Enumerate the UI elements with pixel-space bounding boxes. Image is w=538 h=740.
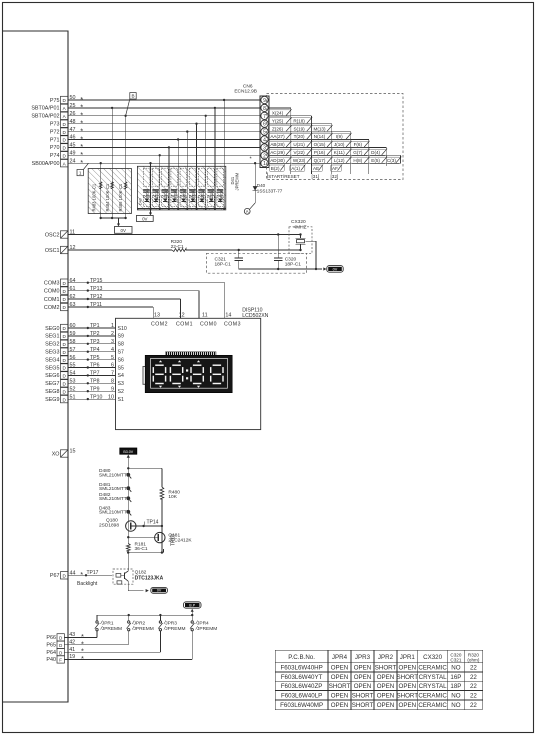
svg-text:V(22): V(22) xyxy=(293,150,305,155)
svg-text:JPR4: JPR4 xyxy=(332,654,348,661)
key switch F(6) xyxy=(351,141,369,147)
resistor R44 102 / capacitor C44 / diode D44 column xyxy=(180,168,187,186)
svg-text:SEG1: SEG1 xyxy=(45,334,59,340)
svg-text:Z(26): Z(26) xyxy=(272,126,283,131)
svg-text:F603L6W40MP: F603L6W40MP xyxy=(280,702,323,709)
svg-text:OPEN: OPEN xyxy=(399,702,417,709)
svg-text:9: 9 xyxy=(263,98,266,104)
wire P73 to CN6 xyxy=(68,123,260,125)
svg-text:0V: 0V xyxy=(121,228,126,233)
wire P67 to Q182 xyxy=(68,574,112,576)
key switch C(3) xyxy=(386,157,400,163)
wire SEG7 xyxy=(68,382,116,384)
svg-text:J(10): J(10) xyxy=(334,142,345,147)
jumper JPR2 JPREMM xyxy=(128,615,130,621)
svg-text:S1: S1 xyxy=(118,397,124,403)
svg-text:N(14): N(14) xyxy=(314,134,326,139)
svg-text:OPEN: OPEN xyxy=(354,665,372,672)
svg-text:OSC1: OSC1 xyxy=(45,248,60,254)
svg-text:OPEN: OPEN xyxy=(399,665,417,672)
svg-text:SEG4: SEG4 xyxy=(45,357,59,363)
svg-text:SEG7: SEG7 xyxy=(45,381,59,387)
wire SEG1 xyxy=(68,335,116,337)
svg-text:XO: XO xyxy=(52,451,60,457)
svg-text:F603L6W40YT: F603L6W40YT xyxy=(281,674,323,681)
LCD digit 3 (8) xyxy=(193,364,202,366)
svg-text:Backlight: Backlight xyxy=(77,581,98,587)
svg-text:P70: P70 xyxy=(50,145,60,151)
svg-text:22: 22 xyxy=(470,702,477,709)
LCD digit 1 (8) xyxy=(155,364,164,366)
svg-text:SEG9: SEG9 xyxy=(45,397,59,403)
svg-text:S8: S8 xyxy=(118,342,124,348)
svg-text:SEG3: SEG3 xyxy=(45,350,59,356)
svg-text:AE: AE xyxy=(313,166,319,171)
svg-text:CX320: CX320 xyxy=(291,219,306,225)
svg-text:6: 6 xyxy=(263,122,266,128)
svg-text:NO: NO xyxy=(451,702,460,709)
resistor R48 102 / capacitor C48 / diode D48 column xyxy=(217,168,224,186)
svg-text:LCD502XN: LCD502XN xyxy=(242,313,268,319)
svg-text:*: * xyxy=(80,158,83,167)
svg-text:7: 7 xyxy=(263,114,266,120)
svg-text:0V: 0V xyxy=(142,216,147,221)
wire P65 to jumper xyxy=(64,644,128,646)
resistor R41 102 / capacitor C41 / diode D41 column xyxy=(153,168,160,186)
svg-text:COM1: COM1 xyxy=(44,297,60,303)
svg-text:W(23): W(23) xyxy=(293,158,306,163)
svg-text:A: A xyxy=(246,209,249,214)
svg-text:B.P: B.P xyxy=(189,604,195,608)
svg-text:OPEN: OPEN xyxy=(354,674,372,681)
power rail B30V xyxy=(120,448,137,454)
svg-text:COM2: COM2 xyxy=(151,322,168,328)
resistor R43 102 / capacitor C43 / diode D43 column xyxy=(171,168,178,186)
transistor Q180 2SD1898 xyxy=(127,521,129,537)
key switch P(16) xyxy=(311,149,331,155)
svg-text:OPEN: OPEN xyxy=(331,693,349,700)
resistor R45 102 / capacitor C45 / diode D45 column xyxy=(189,168,196,186)
svg-text:22: 22 xyxy=(470,674,477,681)
svg-text:JPREMM: JPREMM xyxy=(134,626,154,632)
svg-text:TP16: TP16 xyxy=(171,534,177,546)
resistor R320 22 xyxy=(68,249,172,251)
svg-text:CRYSTAL: CRYSTAL xyxy=(419,683,448,690)
svg-text:D41: D41 xyxy=(152,195,158,199)
svg-text:SML210MTT: SML210MTT xyxy=(99,510,127,516)
jumper JPR3 JPREMM xyxy=(159,615,161,621)
svg-text:12: 12 xyxy=(179,313,185,319)
CN6 pin 1 xyxy=(261,160,268,167)
svg-text:R484 100K-C1: R484 100K-C1 xyxy=(105,183,110,211)
resistor R46 102 / capacitor C46 / diode D46 column xyxy=(199,168,206,186)
svg-text:P75: P75 xyxy=(50,98,60,104)
svg-text:S(19): S(19) xyxy=(293,126,305,131)
svg-text:JPR4: JPR4 xyxy=(197,621,209,627)
svg-text:D42: D42 xyxy=(161,195,167,199)
resistor R42 102 / capacitor C42 / diode D42 column xyxy=(162,168,169,186)
key switch I(9) xyxy=(332,134,351,140)
svg-text:COM3: COM3 xyxy=(224,322,241,328)
svg-text:SML210MTT: SML210MTT xyxy=(99,486,127,492)
svg-text:ECN12.9B: ECN12.9B xyxy=(234,89,257,95)
wire SEG9 xyxy=(68,398,116,400)
resistor R480 10K xyxy=(128,467,162,469)
svg-text:OPEN: OPEN xyxy=(331,674,349,681)
svg-text:OPEN: OPEN xyxy=(377,674,395,681)
svg-text:COM0: COM0 xyxy=(200,322,217,328)
svg-text:5: 5 xyxy=(263,130,266,136)
svg-text:CX320: CX320 xyxy=(423,654,442,661)
wire Q182 collector up xyxy=(127,553,129,569)
resistor R181 36 xyxy=(127,537,129,543)
svg-text:S6: S6 xyxy=(118,357,124,363)
svg-text:C(3): C(3) xyxy=(387,158,396,163)
diode D480 SML210MTT xyxy=(126,473,130,477)
svg-text:S9: S9 xyxy=(118,334,124,340)
svg-text:JPR1: JPR1 xyxy=(102,621,114,627)
svg-text:13: 13 xyxy=(154,313,160,319)
wire P40 to jumper xyxy=(64,658,192,660)
diode D483 SML210MTT xyxy=(126,510,130,514)
svg-text:JPREMM: JPREMM xyxy=(235,172,240,190)
key switch H(8) xyxy=(351,157,369,163)
svg-text:0V: 0V xyxy=(157,589,162,593)
option table xyxy=(275,649,483,651)
svg-text:START/RESET: START/RESET xyxy=(268,174,299,179)
svg-text:S5: S5 xyxy=(118,365,124,371)
svg-text:SEG2: SEG2 xyxy=(45,342,59,348)
wire B.P to jumper bus xyxy=(191,609,194,612)
svg-text:P72: P72 xyxy=(50,129,60,135)
svg-text:DTC123JKA: DTC123JKA xyxy=(135,575,164,581)
svg-text:AD(30): AD(30) xyxy=(270,158,285,163)
svg-text:22: 22 xyxy=(470,683,477,690)
svg-text:D47: D47 xyxy=(207,195,213,199)
diode D40 1SS133T-77 xyxy=(253,186,258,191)
ground 0V (osc) xyxy=(327,266,343,273)
wire P71 to CN6 xyxy=(68,139,260,141)
IC U1 (microcontroller) body outline xyxy=(3,31,69,702)
svg-text:M(13): M(13) xyxy=(314,126,326,131)
key switch E(5) xyxy=(369,157,387,163)
svg-text:P67: P67 xyxy=(50,573,60,579)
key switch L(12) xyxy=(332,157,351,163)
key switch M(13) xyxy=(311,126,331,132)
svg-text:1: 1 xyxy=(79,171,82,176)
svg-text:CRYSTAL: CRYSTAL xyxy=(419,674,448,681)
svg-text:E(5): E(5) xyxy=(371,158,380,163)
svg-text:L(12): L(12) xyxy=(334,158,345,163)
CN6 pin 2 xyxy=(261,152,268,159)
svg-text:D45: D45 xyxy=(189,195,195,199)
svg-text:JPR3: JPR3 xyxy=(355,654,371,661)
wire COM1 xyxy=(68,298,181,300)
key switch AC(29) xyxy=(268,149,291,155)
svg-text:Q(17): Q(17) xyxy=(314,158,326,163)
wire SEG0 xyxy=(68,327,116,329)
svg-text:OPEN: OPEN xyxy=(377,693,395,700)
wire P74 to CN6 xyxy=(68,154,260,156)
svg-text:11: 11 xyxy=(202,313,208,319)
wire SEG5 xyxy=(68,367,116,369)
svg-text:D40: D40 xyxy=(143,195,149,199)
svg-text:SHORT: SHORT xyxy=(329,683,351,690)
svg-text:36-C1: 36-C1 xyxy=(135,546,148,552)
svg-text:CERAMIC: CERAMIC xyxy=(418,665,447,672)
svg-text:JPREMM: JPREMM xyxy=(165,626,185,632)
svg-text:CERAMIC: CERAMIC xyxy=(418,693,447,700)
power rail B.P xyxy=(184,602,202,608)
svg-text:15: 15 xyxy=(70,449,76,455)
key switch Q(17) xyxy=(311,157,331,163)
svg-text:8: 8 xyxy=(263,106,266,112)
capacitor C321 18P xyxy=(238,249,240,251)
wire SEG3 xyxy=(68,351,116,353)
svg-text:SHORT: SHORT xyxy=(397,674,419,681)
svg-text:SML210MTT: SML210MTT xyxy=(99,473,127,479)
wire P66 to jumper xyxy=(64,636,97,638)
svg-text:SBT0A/P01: SBT0A/P01 xyxy=(31,106,59,112)
svg-text:16P: 16P xyxy=(450,674,461,681)
svg-text:D(4): D(4) xyxy=(371,150,380,155)
svg-text:COM1: COM1 xyxy=(176,322,193,328)
key switch Y(25) xyxy=(268,118,291,124)
wire SEG2 xyxy=(68,343,116,345)
key switch AF xyxy=(331,165,342,171)
wire SBT0A/P01 to CN6 xyxy=(68,107,260,109)
CN6 pin 5 xyxy=(261,128,268,135)
svg-text:F: F xyxy=(59,658,62,663)
svg-text:S7: S7 xyxy=(118,350,124,356)
wire COM3 xyxy=(68,282,225,284)
svg-text:14: 14 xyxy=(225,313,231,319)
svg-text:SBT0A/P02: SBT0A/P02 xyxy=(31,114,59,120)
wire SEG8 xyxy=(68,390,116,392)
wire to ground xyxy=(150,209,152,213)
key switch K(11) xyxy=(332,149,351,155)
resistor array R483 R484 R485 100K xyxy=(88,169,131,214)
key switch R(18) xyxy=(291,118,312,124)
svg-text:X(24): X(24) xyxy=(272,111,284,116)
svg-text:R(18): R(18) xyxy=(293,118,305,123)
key switch D(4) xyxy=(369,149,387,155)
svg-text:F603L6W40ZP: F603L6W40ZP xyxy=(281,683,323,690)
wire from B30V xyxy=(127,455,130,458)
svg-text:18P: 18P xyxy=(450,683,461,690)
LCD glass: zebra strip xyxy=(166,352,217,356)
jumper bus xyxy=(97,614,192,616)
wire SEG4 xyxy=(68,359,116,361)
svg-text:D40: D40 xyxy=(139,198,143,205)
svg-text:COM0: COM0 xyxy=(44,288,60,294)
wire Q180 emitter to Q181 base xyxy=(127,536,129,538)
key switch AB(28) xyxy=(268,141,291,147)
svg-text:D44: D44 xyxy=(180,195,186,199)
wire emitter bus / TP16 xyxy=(127,552,162,554)
wire Q182 emitter to 0V xyxy=(128,590,143,592)
svg-text:R483 100K-C1: R483 100K-C1 xyxy=(91,183,96,211)
svg-text:4: 4 xyxy=(263,138,266,144)
svg-text:JPREMM: JPREMM xyxy=(197,626,217,632)
svg-text:NO: NO xyxy=(451,693,460,700)
key switch U(21) xyxy=(291,141,312,147)
svg-text:AA(27): AA(27) xyxy=(270,134,285,139)
svg-text:*: * xyxy=(81,654,84,663)
svg-text:2SD1898: 2SD1898 xyxy=(99,522,119,528)
svg-text:22: 22 xyxy=(470,665,477,672)
svg-text:P65: P65 xyxy=(46,643,56,649)
svg-text:OPEN: OPEN xyxy=(331,702,349,709)
key switch O(15) xyxy=(311,141,331,147)
svg-text:OPEN: OPEN xyxy=(377,683,395,690)
svg-text:OPEN: OPEN xyxy=(354,683,372,690)
svg-text:B3.0V: B3.0V xyxy=(123,450,133,454)
key switch V(22) xyxy=(291,149,312,155)
LCD digit 2 (8) xyxy=(172,364,181,366)
CN6 pin 6 xyxy=(261,120,268,127)
key switch J(10) xyxy=(332,141,351,147)
resistor R47 102 / capacitor C47 / diode D47 column xyxy=(208,168,215,186)
key switch AA(27) xyxy=(268,134,291,140)
svg-text:Y(25): Y(25) xyxy=(272,118,284,123)
svg-text:3: 3 xyxy=(263,145,266,151)
wire CN6 pin1 to D40 xyxy=(254,163,256,203)
wire ground bus xyxy=(239,268,316,270)
svg-text:D43: D43 xyxy=(171,195,177,199)
wire SB00A/P00 to CN6 xyxy=(68,162,260,164)
svg-text:TP14: TP14 xyxy=(147,519,159,525)
key switch AD(30) xyxy=(268,157,291,163)
ground 0V (RC array) xyxy=(136,216,153,222)
svg-text:AC(29): AC(29) xyxy=(270,150,285,155)
svg-text:4MHZ: 4MHZ xyxy=(294,224,307,230)
key switch Z(26) xyxy=(268,126,291,132)
net label B xyxy=(130,93,136,99)
svg-text:OPEN: OPEN xyxy=(331,665,349,672)
svg-text:P71: P71 xyxy=(50,137,60,143)
svg-text:D46: D46 xyxy=(198,195,204,199)
svg-text:SEG0: SEG0 xyxy=(45,326,59,332)
svg-text:AF: AF xyxy=(332,166,338,171)
wire P70 to CN6 xyxy=(68,146,260,148)
svg-text:P64: P64 xyxy=(46,650,56,656)
svg-text:1SS133T-77: 1SS133T-77 xyxy=(257,188,283,193)
resistor R40 102 / capacitor C40 / diode D40 column xyxy=(143,168,150,186)
wire OSC2 xyxy=(68,234,301,236)
capacitor C320 18P xyxy=(277,233,279,235)
ground 0V (backlight) xyxy=(151,587,168,593)
transistor Q181 2SC2412K xyxy=(161,533,163,553)
CN6 pin 7 xyxy=(261,112,268,119)
LCD module DISP110 LCD502XN outline xyxy=(116,318,261,429)
node: pin1 branch to D40 xyxy=(254,162,256,164)
svg-text:OPEN: OPEN xyxy=(377,702,395,709)
svg-text:18P-C1: 18P-C1 xyxy=(215,261,232,267)
svg-text:D48: D48 xyxy=(217,195,223,199)
svg-text:A(1): A(1) xyxy=(291,166,300,171)
svg-text:SHORT: SHORT xyxy=(375,665,397,672)
svg-text:G(7): G(7) xyxy=(353,150,363,155)
svg-text:H(8): H(8) xyxy=(353,158,362,163)
svg-text:P73: P73 xyxy=(50,122,60,128)
LCD black display window xyxy=(145,355,232,392)
svg-text:JPR2: JPR2 xyxy=(134,621,146,627)
svg-text:P74: P74 xyxy=(50,153,60,159)
key switch S(19) xyxy=(291,126,312,132)
svg-text:O(15): O(15) xyxy=(314,142,326,147)
CN6 pin 9 xyxy=(261,96,268,103)
svg-text:OSC2: OSC2 xyxy=(45,232,60,238)
key matrix enclosure (dashed) xyxy=(267,94,404,180)
svg-text:[32]: [32] xyxy=(331,174,339,179)
wire P64 to jumper xyxy=(64,651,160,653)
node dots: key matrix column taps xyxy=(100,162,102,164)
svg-text:(ohm): (ohm) xyxy=(467,657,479,662)
svg-text:SEG8: SEG8 xyxy=(45,389,59,395)
wire COM2 xyxy=(68,306,153,308)
svg-text:22-C1: 22-C1 xyxy=(171,244,184,250)
svg-text:2: 2 xyxy=(263,153,266,159)
key switch G(7) xyxy=(351,149,369,155)
svg-text:*: * xyxy=(80,570,83,579)
wire: array commons to ground xyxy=(101,217,126,219)
svg-text:AB(28): AB(28) xyxy=(270,142,285,147)
svg-text:SB00A/P00: SB00A/P00 xyxy=(32,161,60,167)
svg-text:P66: P66 xyxy=(46,635,56,641)
key switch T(20) xyxy=(291,134,312,140)
key switch AE xyxy=(312,165,323,171)
off-page connector A xyxy=(250,203,256,209)
svg-text:JPR2: JPR2 xyxy=(378,654,394,661)
svg-text:[31]: [31] xyxy=(312,174,320,179)
svg-text:F603L6W40LP: F603L6W40LP xyxy=(281,693,322,700)
svg-text:C321: C321 xyxy=(450,657,461,662)
wire SBT0A/P02 to CN6 xyxy=(68,115,260,117)
svg-text:JPR3: JPR3 xyxy=(165,621,177,627)
svg-text:10K: 10K xyxy=(168,494,177,500)
svg-text:COM3: COM3 xyxy=(44,281,60,287)
svg-text:SEG5: SEG5 xyxy=(45,365,59,371)
svg-text:B: B xyxy=(131,94,134,99)
svg-text:OPEN: OPEN xyxy=(399,683,417,690)
wire SEG6 xyxy=(68,374,116,376)
svg-text:JPREMM: JPREMM xyxy=(102,626,122,632)
wire COM0 xyxy=(68,290,199,292)
svg-text:T(20): T(20) xyxy=(294,134,305,139)
svg-text:22: 22 xyxy=(470,693,477,700)
LCD left tab xyxy=(143,367,146,385)
key switch W(23) xyxy=(291,157,312,163)
CN6 pin 3 xyxy=(261,144,268,151)
svg-text:0V: 0V xyxy=(333,268,338,272)
svg-text:NO: NO xyxy=(451,665,460,672)
svg-text:SHORT: SHORT xyxy=(352,702,374,709)
svg-text:SHORT: SHORT xyxy=(352,693,374,700)
key switch N(14) xyxy=(311,134,331,140)
svg-text:K(11): K(11) xyxy=(334,150,345,155)
ground 0V (left array) xyxy=(115,227,133,234)
svg-text:U(21): U(21) xyxy=(293,142,305,147)
svg-text:SHORT: SHORT xyxy=(397,693,419,700)
net label 1 xyxy=(77,170,83,176)
key switch A(1) xyxy=(290,165,305,171)
wire P72 to CN6 xyxy=(68,131,260,133)
wire Q180 base / TP14 node xyxy=(131,525,162,527)
svg-text:18P-C1: 18P-C1 xyxy=(285,261,302,267)
svg-text:B(2): B(2) xyxy=(271,166,280,171)
svg-text:D40: D40 xyxy=(257,183,266,188)
